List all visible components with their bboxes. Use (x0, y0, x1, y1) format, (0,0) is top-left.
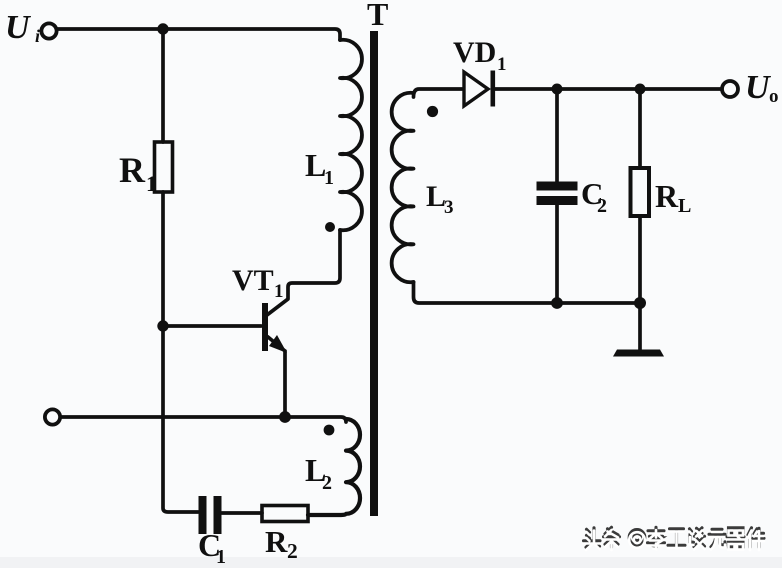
svg-text:U: U (5, 9, 32, 46)
svg-text:2: 2 (322, 472, 332, 494)
svg-text:R: R (265, 524, 288, 559)
svg-text:1: 1 (274, 281, 284, 302)
svg-text:L: L (678, 195, 691, 217)
svg-text:L: L (426, 180, 446, 213)
svg-text:i: i (35, 26, 40, 46)
svg-text:1: 1 (497, 54, 507, 75)
svg-text:VD: VD (453, 36, 496, 69)
svg-text:R: R (119, 150, 146, 190)
svg-text:3: 3 (444, 197, 454, 218)
svg-text:U: U (745, 69, 772, 106)
svg-text:VT: VT (232, 264, 274, 297)
svg-text:2: 2 (287, 539, 298, 563)
svg-text:T: T (367, 0, 388, 32)
svg-text:2: 2 (597, 195, 607, 217)
svg-text:1: 1 (146, 171, 157, 196)
svg-text:o: o (769, 86, 779, 107)
svg-text:1: 1 (324, 167, 334, 189)
svg-text:1: 1 (216, 546, 226, 568)
svg-text:R: R (655, 178, 679, 214)
